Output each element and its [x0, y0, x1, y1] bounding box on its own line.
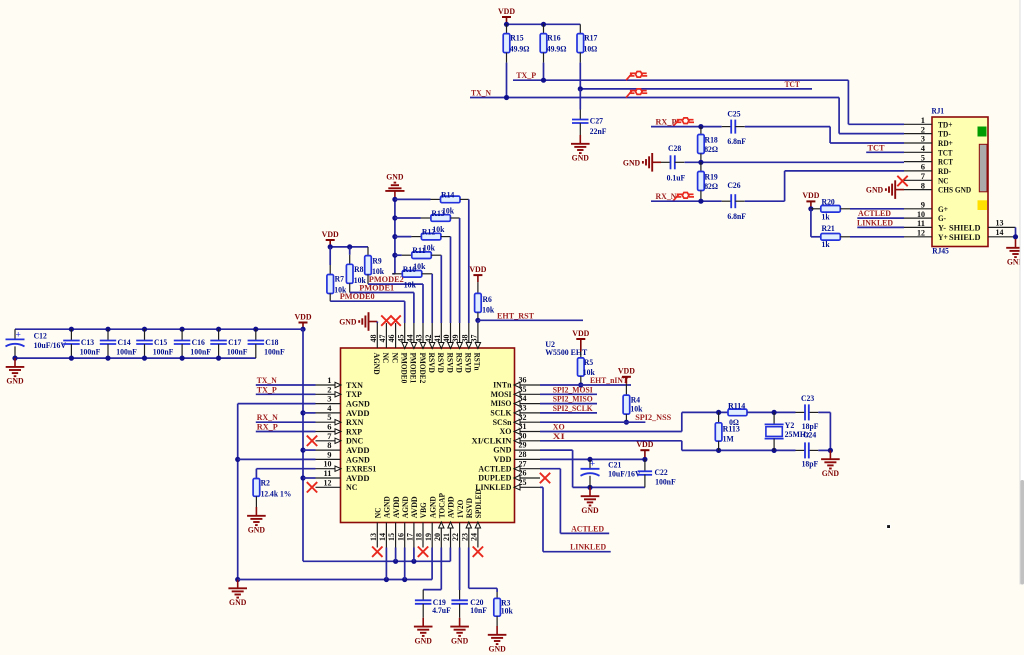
svg-text:TX_P: TX_P	[257, 384, 278, 394]
svg-text:RSVD: RSVD	[464, 353, 474, 373]
svg-text:TCT: TCT	[785, 79, 800, 89]
svg-text:24: 24	[469, 532, 479, 541]
svg-text:R19: R19	[705, 171, 719, 181]
svg-text:R14: R14	[441, 189, 455, 199]
svg-text:GND: GND	[572, 153, 589, 163]
svg-text:GND: GND	[822, 468, 839, 478]
svg-text:VDD: VDD	[636, 439, 653, 449]
svg-text:100nF: 100nF	[190, 347, 211, 357]
svg-text:GND: GND	[229, 597, 246, 607]
svg-text:+: +	[590, 460, 595, 470]
svg-text:VDD: VDD	[802, 190, 819, 200]
svg-text:R114: R114	[728, 400, 746, 410]
svg-text:GND: GND	[623, 157, 640, 167]
svg-text:C22: C22	[655, 467, 669, 477]
svg-text:R20: R20	[822, 197, 836, 207]
svg-text:NC: NC	[390, 353, 400, 364]
svg-text:GND: GND	[866, 185, 883, 195]
svg-text:GND: GND	[581, 505, 598, 515]
svg-text:RSVD: RSVD	[454, 353, 464, 373]
svg-text:C23: C23	[801, 393, 815, 403]
svg-text:R18: R18	[705, 134, 719, 144]
svg-text:R12: R12	[422, 227, 436, 237]
svg-text:R21: R21	[822, 223, 835, 233]
svg-text:8: 8	[921, 180, 925, 190]
svg-text:R15: R15	[510, 33, 524, 43]
svg-text:49.9Ω: 49.9Ω	[547, 43, 567, 53]
svg-text:RSVD: RSVD	[436, 353, 446, 373]
svg-text:SPI2_SCLK: SPI2_SCLK	[553, 403, 593, 413]
svg-text:PMODE2: PMODE2	[418, 353, 428, 384]
svg-text:EHT_RST: EHT_RST	[497, 310, 534, 320]
svg-text:4.7uF: 4.7uF	[432, 605, 451, 615]
svg-text:12.4k 1%: 12.4k 1%	[261, 489, 292, 499]
svg-text:SPI2_NSS: SPI2_NSS	[635, 412, 671, 422]
svg-text:18pF: 18pF	[802, 459, 819, 469]
svg-text:6.8nF: 6.8nF	[727, 211, 746, 221]
svg-text:R9: R9	[372, 255, 382, 265]
svg-text:PMODE0: PMODE0	[340, 291, 376, 301]
svg-text:RSTn: RSTn	[473, 353, 483, 371]
svg-text:PMODE1: PMODE1	[409, 353, 419, 384]
svg-text:1k: 1k	[822, 211, 830, 221]
svg-text:+: +	[15, 330, 20, 340]
svg-text:TX_P: TX_P	[516, 70, 537, 80]
svg-text:C26: C26	[727, 180, 741, 190]
svg-text:TCT: TCT	[868, 143, 885, 153]
svg-text:82Ω: 82Ω	[704, 181, 718, 191]
svg-text:R17: R17	[584, 33, 598, 43]
svg-text:C24: C24	[803, 430, 817, 440]
svg-text:LINKLED: LINKLED	[570, 542, 606, 552]
svg-text:RSVD: RSVD	[445, 353, 455, 373]
svg-text:12: 12	[917, 228, 925, 238]
svg-text:10k: 10k	[482, 305, 494, 315]
svg-text:ACTLED: ACTLED	[571, 523, 604, 533]
svg-text:AGND: AGND	[372, 353, 382, 375]
svg-text:RX_P: RX_P	[257, 422, 279, 432]
svg-text:CHS GND: CHS GND	[938, 185, 971, 195]
svg-text:10k: 10k	[501, 605, 513, 615]
svg-text:RSVD: RSVD	[427, 353, 437, 373]
svg-text:10uF/16V: 10uF/16V	[34, 340, 67, 350]
svg-text:GND: GND	[339, 317, 356, 327]
svg-text:VDD: VDD	[469, 264, 486, 274]
svg-text:VDD: VDD	[498, 6, 515, 16]
svg-text:10nF: 10nF	[470, 605, 487, 615]
svg-text:100nF: 100nF	[655, 476, 676, 486]
svg-text:GND: GND	[6, 376, 23, 386]
svg-text:1M: 1M	[723, 433, 735, 443]
svg-text:NC: NC	[381, 353, 391, 364]
svg-text:SPDLED: SPDLED	[473, 489, 483, 518]
svg-text:C25: C25	[727, 109, 741, 119]
svg-text:C27: C27	[590, 115, 604, 125]
svg-text:100nF: 100nF	[116, 347, 137, 357]
svg-text:Y+: Y+	[938, 232, 948, 242]
svg-text:PMODE0: PMODE0	[400, 353, 410, 384]
svg-text:R113: R113	[723, 424, 741, 434]
svg-text:12: 12	[324, 477, 332, 487]
svg-text:14: 14	[996, 227, 1005, 237]
svg-text:VDD: VDD	[294, 311, 311, 321]
svg-text:R8: R8	[354, 264, 364, 274]
svg-text:GND: GND	[248, 525, 265, 535]
svg-text:GND: GND	[386, 172, 403, 182]
svg-text:GND: GND	[415, 635, 432, 645]
svg-text:NC: NC	[346, 482, 357, 492]
svg-text:R10: R10	[403, 264, 417, 274]
svg-text:37: 37	[469, 334, 479, 343]
svg-text:RJ1: RJ1	[932, 106, 945, 116]
svg-text:LINKLED: LINKLED	[857, 217, 893, 227]
svg-text:VDD: VDD	[618, 366, 635, 376]
svg-text:6.8nF: 6.8nF	[727, 136, 746, 146]
svg-text:49.9Ω: 49.9Ω	[510, 43, 530, 53]
svg-text:C28: C28	[668, 143, 682, 153]
svg-text:100nF: 100nF	[227, 347, 248, 357]
svg-text:22nF: 22nF	[590, 126, 607, 136]
svg-text:10k: 10k	[404, 280, 416, 290]
svg-text:R11: R11	[412, 245, 425, 255]
svg-text:10uF/16V: 10uF/16V	[608, 469, 641, 479]
svg-text:R16: R16	[547, 33, 561, 43]
svg-text:VDD: VDD	[322, 229, 339, 239]
svg-text:TX_N: TX_N	[471, 88, 492, 98]
svg-text:R5: R5	[584, 357, 594, 367]
svg-text:GND: GND	[451, 635, 468, 645]
svg-text:VDD: VDD	[572, 328, 589, 338]
svg-text:10Ω: 10Ω	[584, 43, 598, 53]
svg-text:RJ45: RJ45	[932, 246, 949, 256]
svg-text:100nF: 100nF	[264, 347, 285, 357]
svg-text:SHIELD: SHIELD	[949, 232, 981, 242]
svg-text:1k: 1k	[822, 239, 830, 249]
svg-text:100nF: 100nF	[153, 347, 174, 357]
svg-text:R6: R6	[483, 294, 493, 304]
svg-text:R13: R13	[431, 208, 445, 218]
svg-text:XI: XI	[553, 431, 566, 441]
svg-text:R7: R7	[335, 274, 345, 284]
svg-text:82Ω: 82Ω	[704, 144, 718, 154]
svg-text:R2: R2	[261, 478, 271, 488]
svg-text:0.1uF: 0.1uF	[667, 172, 686, 182]
svg-text:100nF: 100nF	[80, 347, 101, 357]
svg-text:GND: GND	[488, 644, 505, 654]
